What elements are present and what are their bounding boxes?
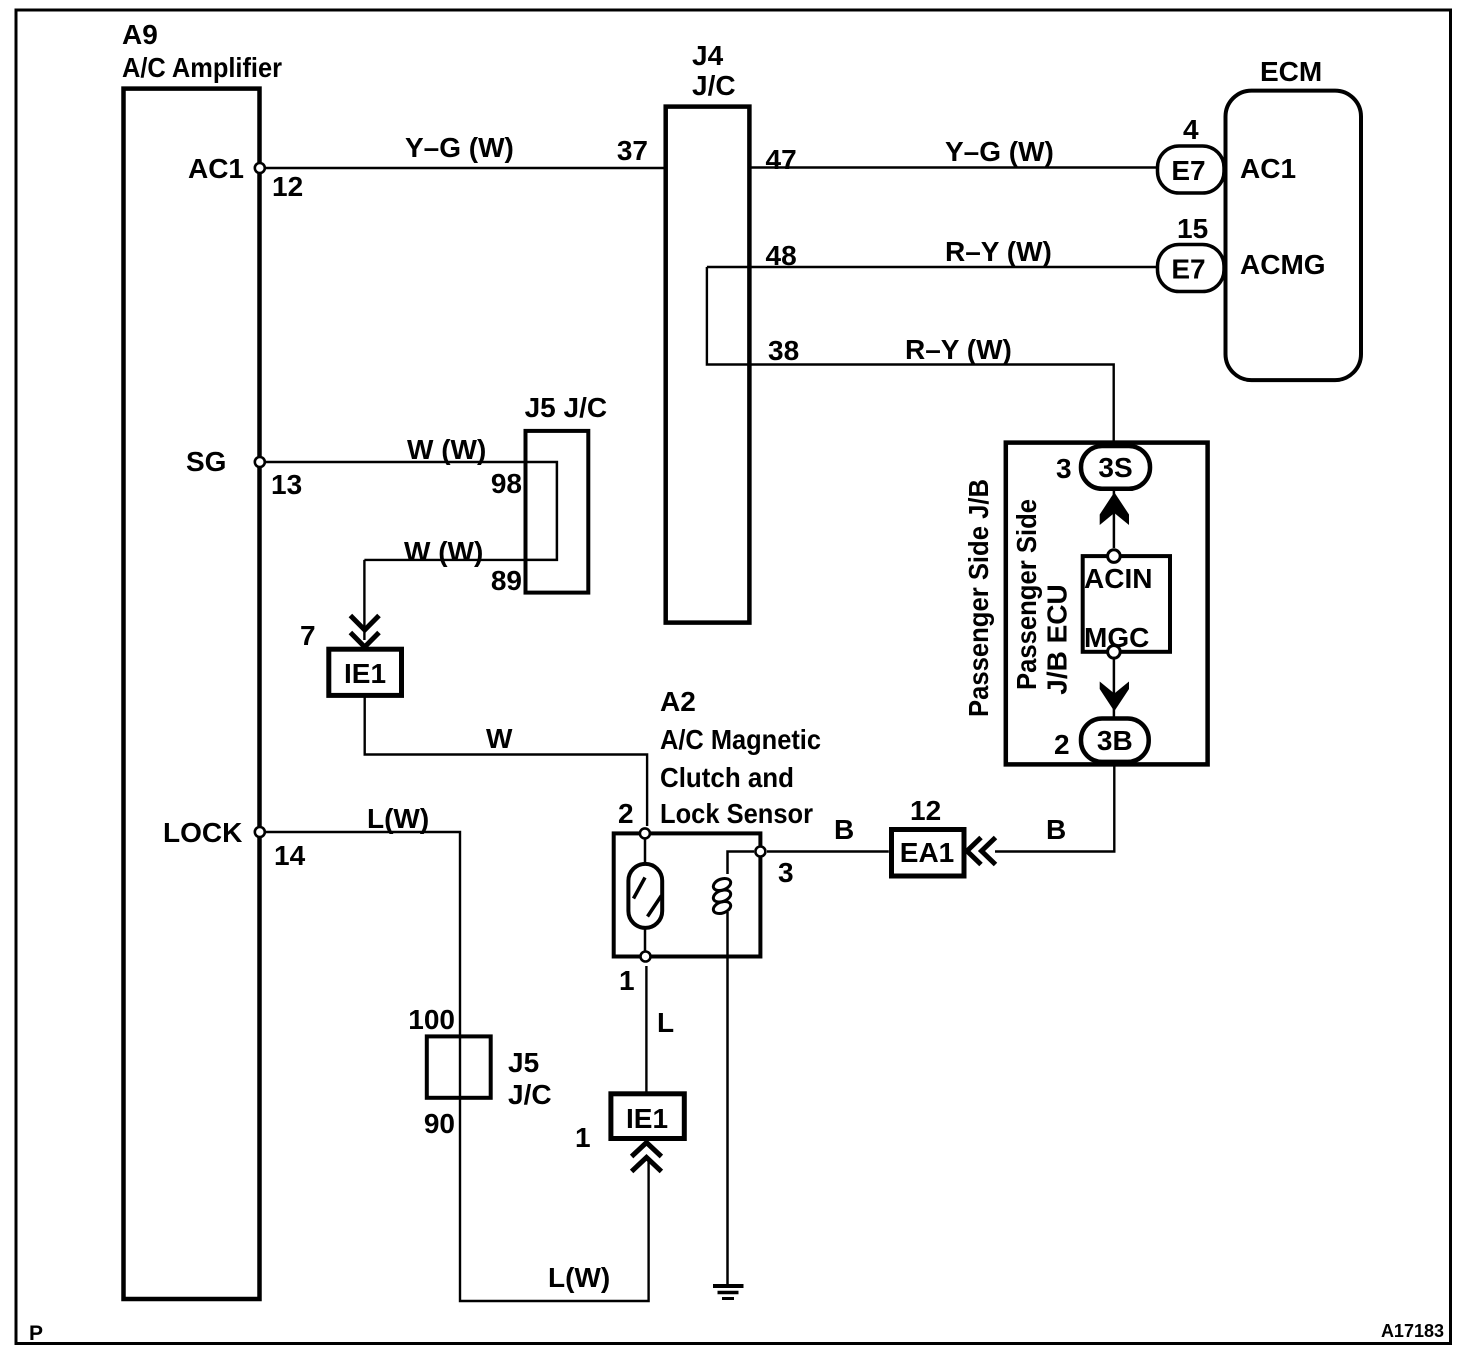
svg-text:MGC: MGC bbox=[1084, 622, 1149, 653]
svg-text:38: 38 bbox=[768, 335, 799, 366]
svg-text:14: 14 bbox=[274, 840, 306, 871]
svg-text:A/C Magnetic: A/C Magnetic bbox=[660, 724, 821, 755]
svg-text:A/C Amplifier: A/C Amplifier bbox=[122, 52, 282, 83]
svg-text:E7: E7 bbox=[1171, 155, 1205, 186]
svg-text:3B: 3B bbox=[1097, 725, 1133, 756]
svg-text:2: 2 bbox=[1054, 729, 1070, 760]
svg-text:AC1: AC1 bbox=[188, 153, 244, 184]
svg-text:L(W): L(W) bbox=[367, 803, 429, 834]
svg-text:89: 89 bbox=[491, 565, 522, 596]
svg-text:ACMG: ACMG bbox=[1240, 249, 1326, 280]
svg-text:2: 2 bbox=[618, 798, 634, 829]
svg-text:AC1: AC1 bbox=[1240, 153, 1296, 184]
svg-text:B: B bbox=[834, 814, 854, 845]
svg-text:ACIN: ACIN bbox=[1084, 563, 1152, 594]
svg-text:IE1: IE1 bbox=[626, 1103, 668, 1134]
svg-text:7: 7 bbox=[300, 620, 316, 651]
svg-text:47: 47 bbox=[766, 144, 797, 175]
svg-text:A17183: A17183 bbox=[1381, 1321, 1444, 1341]
svg-text:98: 98 bbox=[491, 468, 522, 499]
svg-text:37: 37 bbox=[617, 135, 648, 166]
svg-text:B: B bbox=[1046, 814, 1066, 845]
svg-text:W (W): W (W) bbox=[407, 434, 486, 465]
svg-text:ECM: ECM bbox=[1260, 56, 1322, 87]
svg-text:Passenger Side J/B: Passenger Side J/B bbox=[963, 479, 994, 717]
svg-text:J4: J4 bbox=[692, 40, 724, 71]
svg-text:A2: A2 bbox=[660, 686, 696, 717]
svg-text:4: 4 bbox=[1183, 114, 1199, 145]
svg-text:IE1: IE1 bbox=[344, 658, 386, 689]
svg-text:Lock Sensor: Lock Sensor bbox=[660, 798, 813, 829]
svg-text:48: 48 bbox=[766, 240, 797, 271]
svg-text:12: 12 bbox=[272, 171, 303, 202]
svg-text:3: 3 bbox=[1056, 453, 1072, 484]
svg-text:3S: 3S bbox=[1098, 452, 1132, 483]
svg-text:90: 90 bbox=[424, 1108, 455, 1139]
svg-text:A9: A9 bbox=[122, 19, 158, 50]
svg-text:L: L bbox=[657, 1007, 674, 1038]
svg-text:J/C: J/C bbox=[692, 70, 736, 101]
svg-text:15: 15 bbox=[1177, 213, 1208, 244]
svg-text:3: 3 bbox=[778, 857, 794, 888]
svg-text:13: 13 bbox=[271, 469, 302, 500]
svg-text:E7: E7 bbox=[1171, 254, 1205, 285]
svg-text:R–Y (W): R–Y (W) bbox=[905, 334, 1012, 365]
svg-text:100: 100 bbox=[408, 1004, 455, 1035]
svg-text:J5 J/C: J5 J/C bbox=[525, 392, 608, 423]
svg-text:R–Y (W): R–Y (W) bbox=[945, 236, 1052, 267]
svg-text:Clutch and: Clutch and bbox=[660, 762, 794, 793]
svg-text:Y–G (W): Y–G (W) bbox=[405, 132, 514, 163]
svg-text:Passenger Side: Passenger Side bbox=[1011, 499, 1042, 690]
svg-text:LOCK: LOCK bbox=[163, 817, 242, 848]
svg-text:EA1: EA1 bbox=[900, 837, 954, 868]
svg-text:SG: SG bbox=[186, 446, 226, 477]
svg-text:J/C: J/C bbox=[508, 1079, 552, 1110]
svg-text:1: 1 bbox=[575, 1122, 591, 1153]
svg-text:W (W): W (W) bbox=[404, 536, 483, 567]
svg-text:L(W): L(W) bbox=[548, 1262, 610, 1293]
svg-text:Y–G (W): Y–G (W) bbox=[945, 136, 1054, 167]
svg-text:J/B ECU: J/B ECU bbox=[1042, 584, 1073, 694]
svg-text:W: W bbox=[486, 723, 513, 754]
svg-text:P: P bbox=[29, 1322, 43, 1345]
svg-text:J5: J5 bbox=[508, 1047, 539, 1078]
svg-text:12: 12 bbox=[910, 795, 941, 826]
svg-text:1: 1 bbox=[619, 965, 635, 996]
